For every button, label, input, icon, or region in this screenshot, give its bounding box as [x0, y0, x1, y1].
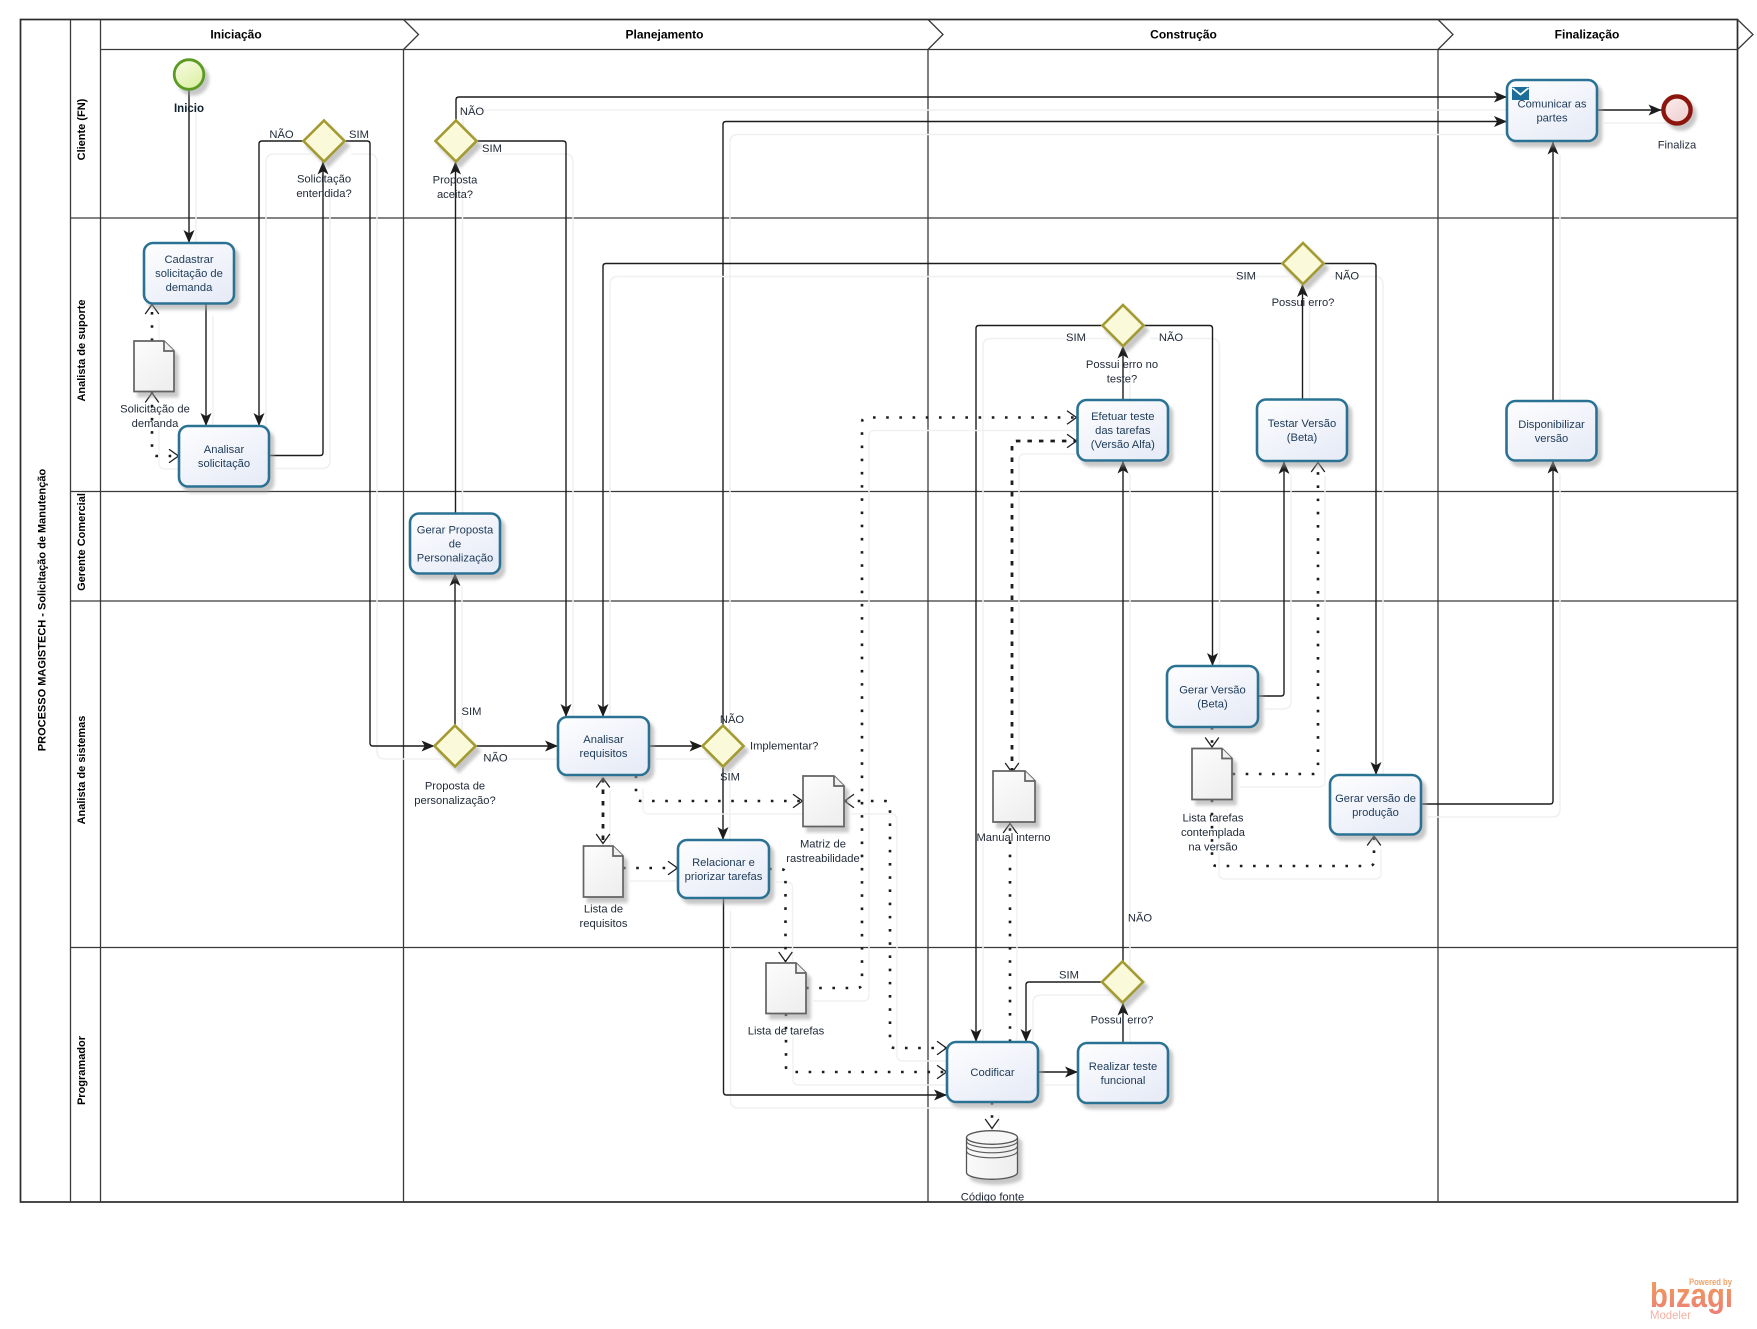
association: Analisar requisitos <-> Lista de requisitos doc — [596, 778, 610, 857]
wire: Gerar Proposta -> GW Proposta aceita — [450, 162, 463, 528]
svg-text:Analista de suporte: Analista de suporte — [76, 299, 88, 401]
wire: GW Proposta aceita SIM -> Analisar requisitos — [477, 141, 574, 730]
svg-text:Construção: Construção — [1150, 28, 1217, 42]
wire: Relacionar -> Codificar — [724, 898, 955, 1108]
svg-text:na versão: na versão — [1188, 841, 1237, 853]
wire: Gerar versão de produção -> Disponibilizar versão — [1421, 461, 1560, 818]
phase boundary 3 with chevron — [1437, 50, 1439, 1203]
wire: GW Possui erro (beta) SIM -> Analisar requisitos — [598, 264, 1290, 731]
task: Relacionar e priorizar tarefas — [678, 840, 769, 898]
svg-text:Possui erro?: Possui erro? — [1272, 297, 1335, 309]
svg-text:SIM: SIM — [462, 706, 482, 718]
svg-text:Finaliza: Finaliza — [1658, 140, 1697, 152]
gateway GW4 Implementar? — [703, 726, 744, 767]
svg-text:PROCESSO MAGISTECH - Solicitaç: PROCESSO MAGISTECH - Solicitação de Manu… — [37, 469, 49, 752]
svg-text:Comunicar as: Comunicar as — [1517, 99, 1586, 111]
wire: GW Implementar SIM -> Relacionar e priorizar — [718, 767, 731, 854]
task: Comunicar as partes — [1507, 80, 1597, 141]
svg-text:Lista de tarefas: Lista de tarefas — [748, 1026, 825, 1038]
svg-text:priorizar tarefas: priorizar tarefas — [685, 871, 763, 883]
svg-text:Testar Versão: Testar Versão — [1268, 418, 1336, 430]
svg-text:de: de — [449, 539, 461, 551]
svg-text:solicitação: solicitação — [198, 458, 250, 470]
svg-text:SIM: SIM — [1059, 970, 1079, 982]
association: Analisar requisitos -> Matriz de rastreabilidade — [636, 776, 810, 815]
svg-text:NÃO: NÃO — [483, 752, 508, 765]
wire: Testar Versão -> GW Possui erro (beta) — [1297, 284, 1310, 413]
document: Lista de requisitos — [584, 846, 624, 897]
document: Manual interno — [993, 771, 1035, 822]
association: Matriz de rastreabilidade <-> Codificar — [845, 794, 954, 1061]
svg-text:Modeler: Modeler — [1650, 1308, 1691, 1322]
wire: Codificar -> Realizar teste funcional — [1038, 1067, 1085, 1086]
wire: GW Possui erro (prog) SIM -> Codificar — [1021, 982, 1110, 1055]
lane boundary 3 — [71, 600, 1738, 602]
svg-text:Realizar teste: Realizar teste — [1089, 1061, 1157, 1073]
svg-text:Manual interno: Manual interno — [976, 832, 1050, 844]
svg-text:Solicitação: Solicitação — [297, 174, 351, 186]
svg-text:NÃO: NÃO — [1159, 331, 1184, 344]
association: Lista de tarefas -> Codificar — [786, 1014, 954, 1086]
svg-text:Código fonte: Código fonte — [961, 1192, 1024, 1204]
wire: GW Possui erro (prog) NÃO -> Efetuar teste — [1118, 461, 1131, 975]
svg-text:Analista de sistemas: Analista de sistemas — [76, 716, 88, 825]
svg-text:Finalização: Finalização — [1555, 28, 1620, 42]
svg-text:NÃO: NÃO — [269, 128, 294, 141]
wire: Analisar solicitação -> GW Solicitação entendida — [269, 162, 330, 469]
wire: Analisar requisitos -> GW Implementar — [649, 741, 710, 760]
svg-text:demanda: demanda — [166, 282, 213, 294]
document: Matriz de rastreabilidade — [803, 776, 844, 827]
wire: GW Implementar NÃO -> Comunicar as partes — [723, 116, 1514, 739]
gateway GW2 Proposta aceita? — [436, 121, 477, 162]
phase boundary 2 with chevron — [927, 50, 929, 1203]
process title column divider — [70, 20, 72, 1203]
svg-text:partes: partes — [1536, 113, 1567, 125]
end event Finaliza — [1663, 96, 1690, 123]
svg-text:Possui erro no: Possui erro no — [1086, 359, 1158, 371]
association: Gerar Versão Beta -> Lista tarefas doc — [1205, 727, 1219, 760]
start event Inicio — [174, 60, 204, 90]
svg-text:Gerente Comercial: Gerente Comercial — [76, 493, 88, 591]
association: Manual interno <-> Efetuar teste — [1005, 434, 1083, 785]
association: Solicitação de demanda doc -> Analisar solicitação — [145, 392, 185, 470]
svg-text:Codificar: Codificar — [970, 1067, 1014, 1079]
svg-text:das tarefas: das tarefas — [1095, 425, 1151, 437]
svg-text:personalização?: personalização? — [414, 795, 495, 807]
wire: GW Possui erro no teste SIM -> Codificar — [971, 326, 1110, 1056]
svg-text:SIM: SIM — [349, 129, 369, 141]
bizagi logo — [1650, 1277, 1733, 1322]
task: Gerar versão de produção — [1330, 775, 1421, 835]
wire: Disponibilizar versão -> Comunicar as partes — [1548, 142, 1561, 415]
right edge chevron of phase band — [1738, 20, 1754, 50]
svg-text:Programador: Programador — [76, 1035, 88, 1105]
svg-text:Gerar Proposta: Gerar Proposta — [417, 525, 494, 537]
svg-text:SIM: SIM — [482, 143, 502, 155]
wire: Efetuar teste -> GW Possui erro no teste — [1118, 346, 1131, 414]
svg-text:funcional: funcional — [1101, 1075, 1146, 1087]
wire: Cadastrar -> Analisar solicitação — [201, 303, 214, 439]
task: Disponibilizar versão — [1507, 401, 1597, 461]
svg-text:Possui erro?: Possui erro? — [1091, 1015, 1154, 1027]
svg-text:entendida?: entendida? — [296, 188, 351, 200]
association: Relacionar -> Lista de tarefas doc — [769, 869, 793, 975]
task: Cadastrar solicitação de demanda — [144, 243, 234, 304]
svg-text:versão: versão — [1535, 433, 1569, 445]
svg-text:(Beta): (Beta) — [1287, 432, 1318, 444]
data store: Código fonte cylinder — [967, 1131, 1018, 1180]
svg-text:Lista de: Lista de — [584, 904, 623, 916]
svg-text:contemplada: contemplada — [1181, 827, 1246, 839]
svg-text:Proposta de: Proposta de — [425, 781, 485, 793]
svg-text:NÃO: NÃO — [460, 105, 485, 118]
svg-text:(Beta): (Beta) — [1197, 699, 1228, 711]
wire: GW Solicitação entendida SIM -> GW Proposta de personalização — [345, 141, 442, 759]
svg-text:Personalização: Personalização — [417, 553, 494, 565]
phase boundary 1 with chevron — [403, 50, 405, 1203]
document: Lista tarefas contemplada na versão — [1192, 749, 1232, 800]
wire: Gerar Versão Beta -> Testar Versão Beta — [1258, 461, 1291, 709]
phase header band bottom line — [101, 49, 1738, 51]
svg-text:demanda: demanda — [132, 418, 179, 430]
association: Codificar -> Código fonte — [985, 1102, 999, 1142]
task: Codificar — [947, 1042, 1038, 1102]
svg-text:teste?: teste? — [1107, 373, 1137, 385]
document: Lista de tarefas — [766, 963, 806, 1014]
gateway GW6 Possui erro? (beta) — [1283, 243, 1324, 284]
svg-text:Solicitação de: Solicitação de — [120, 404, 190, 416]
svg-text:Planejamento: Planejamento — [625, 28, 703, 42]
wire: Inicio -> Cadastrar solicitação — [184, 91, 197, 257]
svg-text:Disponibilizar: Disponibilizar — [1518, 419, 1585, 431]
svg-text:Implementar?: Implementar? — [750, 741, 818, 753]
document: Solicitação de demanda — [134, 341, 174, 392]
wire: GW Possui erro no teste NÃO -> Gerar Versão Beta — [1144, 326, 1220, 680]
association: Cadastrar <- Solicitação de demanda doc — [145, 305, 159, 355]
svg-text:Gerar Versão: Gerar Versão — [1179, 685, 1246, 697]
task: Analisar requisitos — [558, 717, 649, 775]
association: Lista de requisitos -> Relacionar e priorizar — [623, 861, 685, 881]
gateway GW1 Solicitação entendida? — [304, 121, 345, 162]
task: Gerar Versão (Beta) — [1167, 666, 1258, 727]
svg-text:Analisar: Analisar — [583, 734, 624, 746]
wire: GW Solicitação entendida NÃO -> Analisar solicitação — [254, 141, 311, 439]
association: Codificar -> Manual interno doc — [1003, 824, 1017, 1056]
association: Lista tarefas doc -> Gerar versão de produção — [1212, 800, 1381, 880]
svg-text:Relacionar e: Relacionar e — [692, 857, 755, 869]
lane boundary 4 — [71, 947, 1738, 949]
wire: GW Proposta de personalização NÃO -> Analisar requisitos — [476, 741, 566, 760]
lane boundary 1 — [71, 217, 1738, 219]
svg-text:NÃO: NÃO — [1128, 912, 1153, 925]
wire: Realizar teste -> GW Possui erro (prog) — [1118, 1003, 1131, 1057]
task: Testar Versão (Beta) — [1257, 400, 1347, 462]
association: Lista tarefas doc -> Testar Versão Beta — [1233, 463, 1326, 788]
lane boundary 2 — [71, 491, 1738, 493]
svg-text:NÃO: NÃO — [1335, 270, 1360, 283]
svg-text:produção: produção — [1352, 807, 1399, 819]
svg-text:Inicio: Inicio — [174, 103, 204, 115]
wire: GW Possui erro (beta) NÃO -> Gerar versão de produção — [1324, 264, 1384, 789]
svg-text:requisitos: requisitos — [580, 748, 628, 760]
svg-text:SIM: SIM — [1066, 332, 1086, 344]
association: Lista de tarefas -> Efetuar teste — [806, 411, 1084, 1001]
svg-text:Matriz de: Matriz de — [800, 839, 846, 851]
svg-text:Cadastrar: Cadastrar — [164, 254, 213, 266]
gateway GW5 Possui erro no teste? — [1103, 305, 1144, 346]
svg-text:Analisar: Analisar — [204, 444, 245, 456]
svg-text:Lista tarefas: Lista tarefas — [1183, 813, 1244, 825]
task: Analisar solicitação — [179, 426, 269, 487]
svg-text:Gerar versão de: Gerar versão de — [1335, 793, 1416, 805]
svg-text:requisitos: requisitos — [580, 918, 628, 930]
gateway GW7 Possui erro? (prog) — [1102, 962, 1143, 1003]
svg-text:Iniciação: Iniciação — [210, 28, 261, 42]
svg-text:(Versão Alfa): (Versão Alfa) — [1091, 439, 1155, 451]
lane label column divider — [100, 20, 102, 1203]
task: Efetuar teste das tarefas (Versão Alfa) — [1078, 400, 1169, 461]
svg-text:aceita?: aceita? — [437, 189, 473, 201]
svg-text:NÃO: NÃO — [720, 713, 745, 726]
svg-text:rastreabilidade: rastreabilidade — [786, 853, 859, 865]
task: Gerar Proposta de Personalização — [410, 514, 500, 574]
svg-text:Efetuar teste: Efetuar teste — [1091, 411, 1154, 423]
wire: GW Proposta de personalização SIM -> Gerar Proposta — [450, 573, 463, 739]
gateway GW3 Proposta de personalização? — [435, 726, 476, 767]
task: Realizar teste funcional — [1078, 1043, 1168, 1103]
svg-text:solicitação de: solicitação de — [155, 268, 223, 280]
svg-text:SIM: SIM — [1236, 271, 1256, 283]
svg-text:Proposta: Proposta — [433, 175, 479, 187]
svg-text:Cliente (FN): Cliente (FN) — [76, 98, 88, 160]
wire: Comunicar as partes -> Finaliza — [1597, 105, 1669, 124]
wire: GW Proposta aceita NÃO -> Comunicar as partes — [456, 92, 1514, 134]
svg-text:SIM: SIM — [720, 772, 740, 784]
